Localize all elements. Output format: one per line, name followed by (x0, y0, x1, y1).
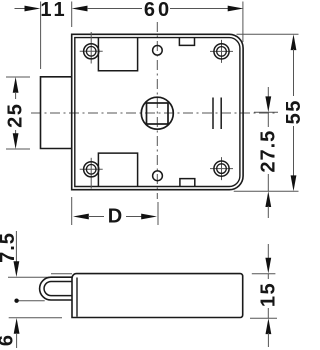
dimension 27.5 (257, 87, 279, 218)
extension line x=158 (dim D right) (157, 202, 159, 225)
svg-text:7.5: 7.5 (0, 232, 19, 263)
side inner vertical line (76, 278, 78, 317)
tab top (179, 38, 194, 46)
detail rect top-left (98, 38, 137, 71)
extension line x=71.7 bottom (dim D left) (71, 197, 73, 225)
dimension 55 (283, 34, 305, 191)
lock body inner outline (75, 38, 240, 187)
screw hole top-right (210, 40, 233, 63)
extension line x=71.7 top (dim 11/60) (71, 2, 73, 28)
dimension 7.5 (0, 231, 19, 277)
ledge line left of body top (51, 273, 72, 275)
bolt loop outer (40, 277, 73, 300)
dimension 25 (4, 77, 26, 149)
bolt loop inner (44, 282, 72, 296)
extension line x=242.9 (dim 60 right) (242, 2, 244, 43)
side body outline (72, 274, 243, 318)
svg-text:11: 11 (40, 0, 67, 21)
svg-text:25: 25 (4, 103, 26, 128)
tab bottom (180, 179, 195, 187)
svg-text:27.5: 27.5 (257, 130, 279, 173)
screw hole bottom-right (210, 157, 233, 180)
double mark lines (212, 98, 214, 130)
extension line y=191.2 (dim 27.5/55 bottom) (234, 190, 299, 192)
extension line y=77 left (dim 25 top) (6, 76, 30, 78)
svg-text:D: D (108, 206, 122, 228)
dimension 15 (257, 244, 279, 347)
small hole top (153, 46, 163, 56)
detail rect bottom-left (98, 153, 137, 186)
extension line y=318.3 (dim 15 bottom) (250, 317, 277, 319)
dimension 60 (72, 0, 244, 21)
dimension 11 (15, 0, 68, 21)
spindle square (147, 103, 169, 124)
screw hole bottom-left (80, 158, 103, 189)
centerline horizontal (top view) (31, 112, 278, 114)
dimension 6 (0, 318, 20, 348)
extension line y=112.3 (dim 27.5 top, center) (254, 111, 278, 113)
svg-text:6: 6 (0, 335, 18, 346)
extension line y=317.8 (dim 6 top) (9, 317, 62, 319)
reference line with dot y=300.7 (17, 300, 45, 302)
svg-text:15: 15 (257, 282, 279, 307)
svg-text:55: 55 (283, 99, 302, 124)
svg-text:60: 60 (144, 0, 172, 21)
dimension D (73, 206, 157, 228)
small hole bottom (153, 171, 163, 181)
extension line y=273.7 (dim 15 top) (252, 273, 276, 275)
extension line y=277.3 (dim 7.5 bottom) (8, 276, 49, 278)
screw hole top-left (80, 32, 103, 64)
bolt (left protrusion) (41, 77, 72, 149)
extension line y=149 left (dim 25 bottom) (6, 148, 30, 150)
extension line y=34.3 right (dim 55 top) (237, 33, 299, 35)
extension line x=40.6 (dim 11 left) (40, 2, 42, 70)
lock body outer outline (72, 34, 243, 189)
spindle circle (141, 97, 173, 129)
centerline vertical (top view) (156, 22, 158, 199)
